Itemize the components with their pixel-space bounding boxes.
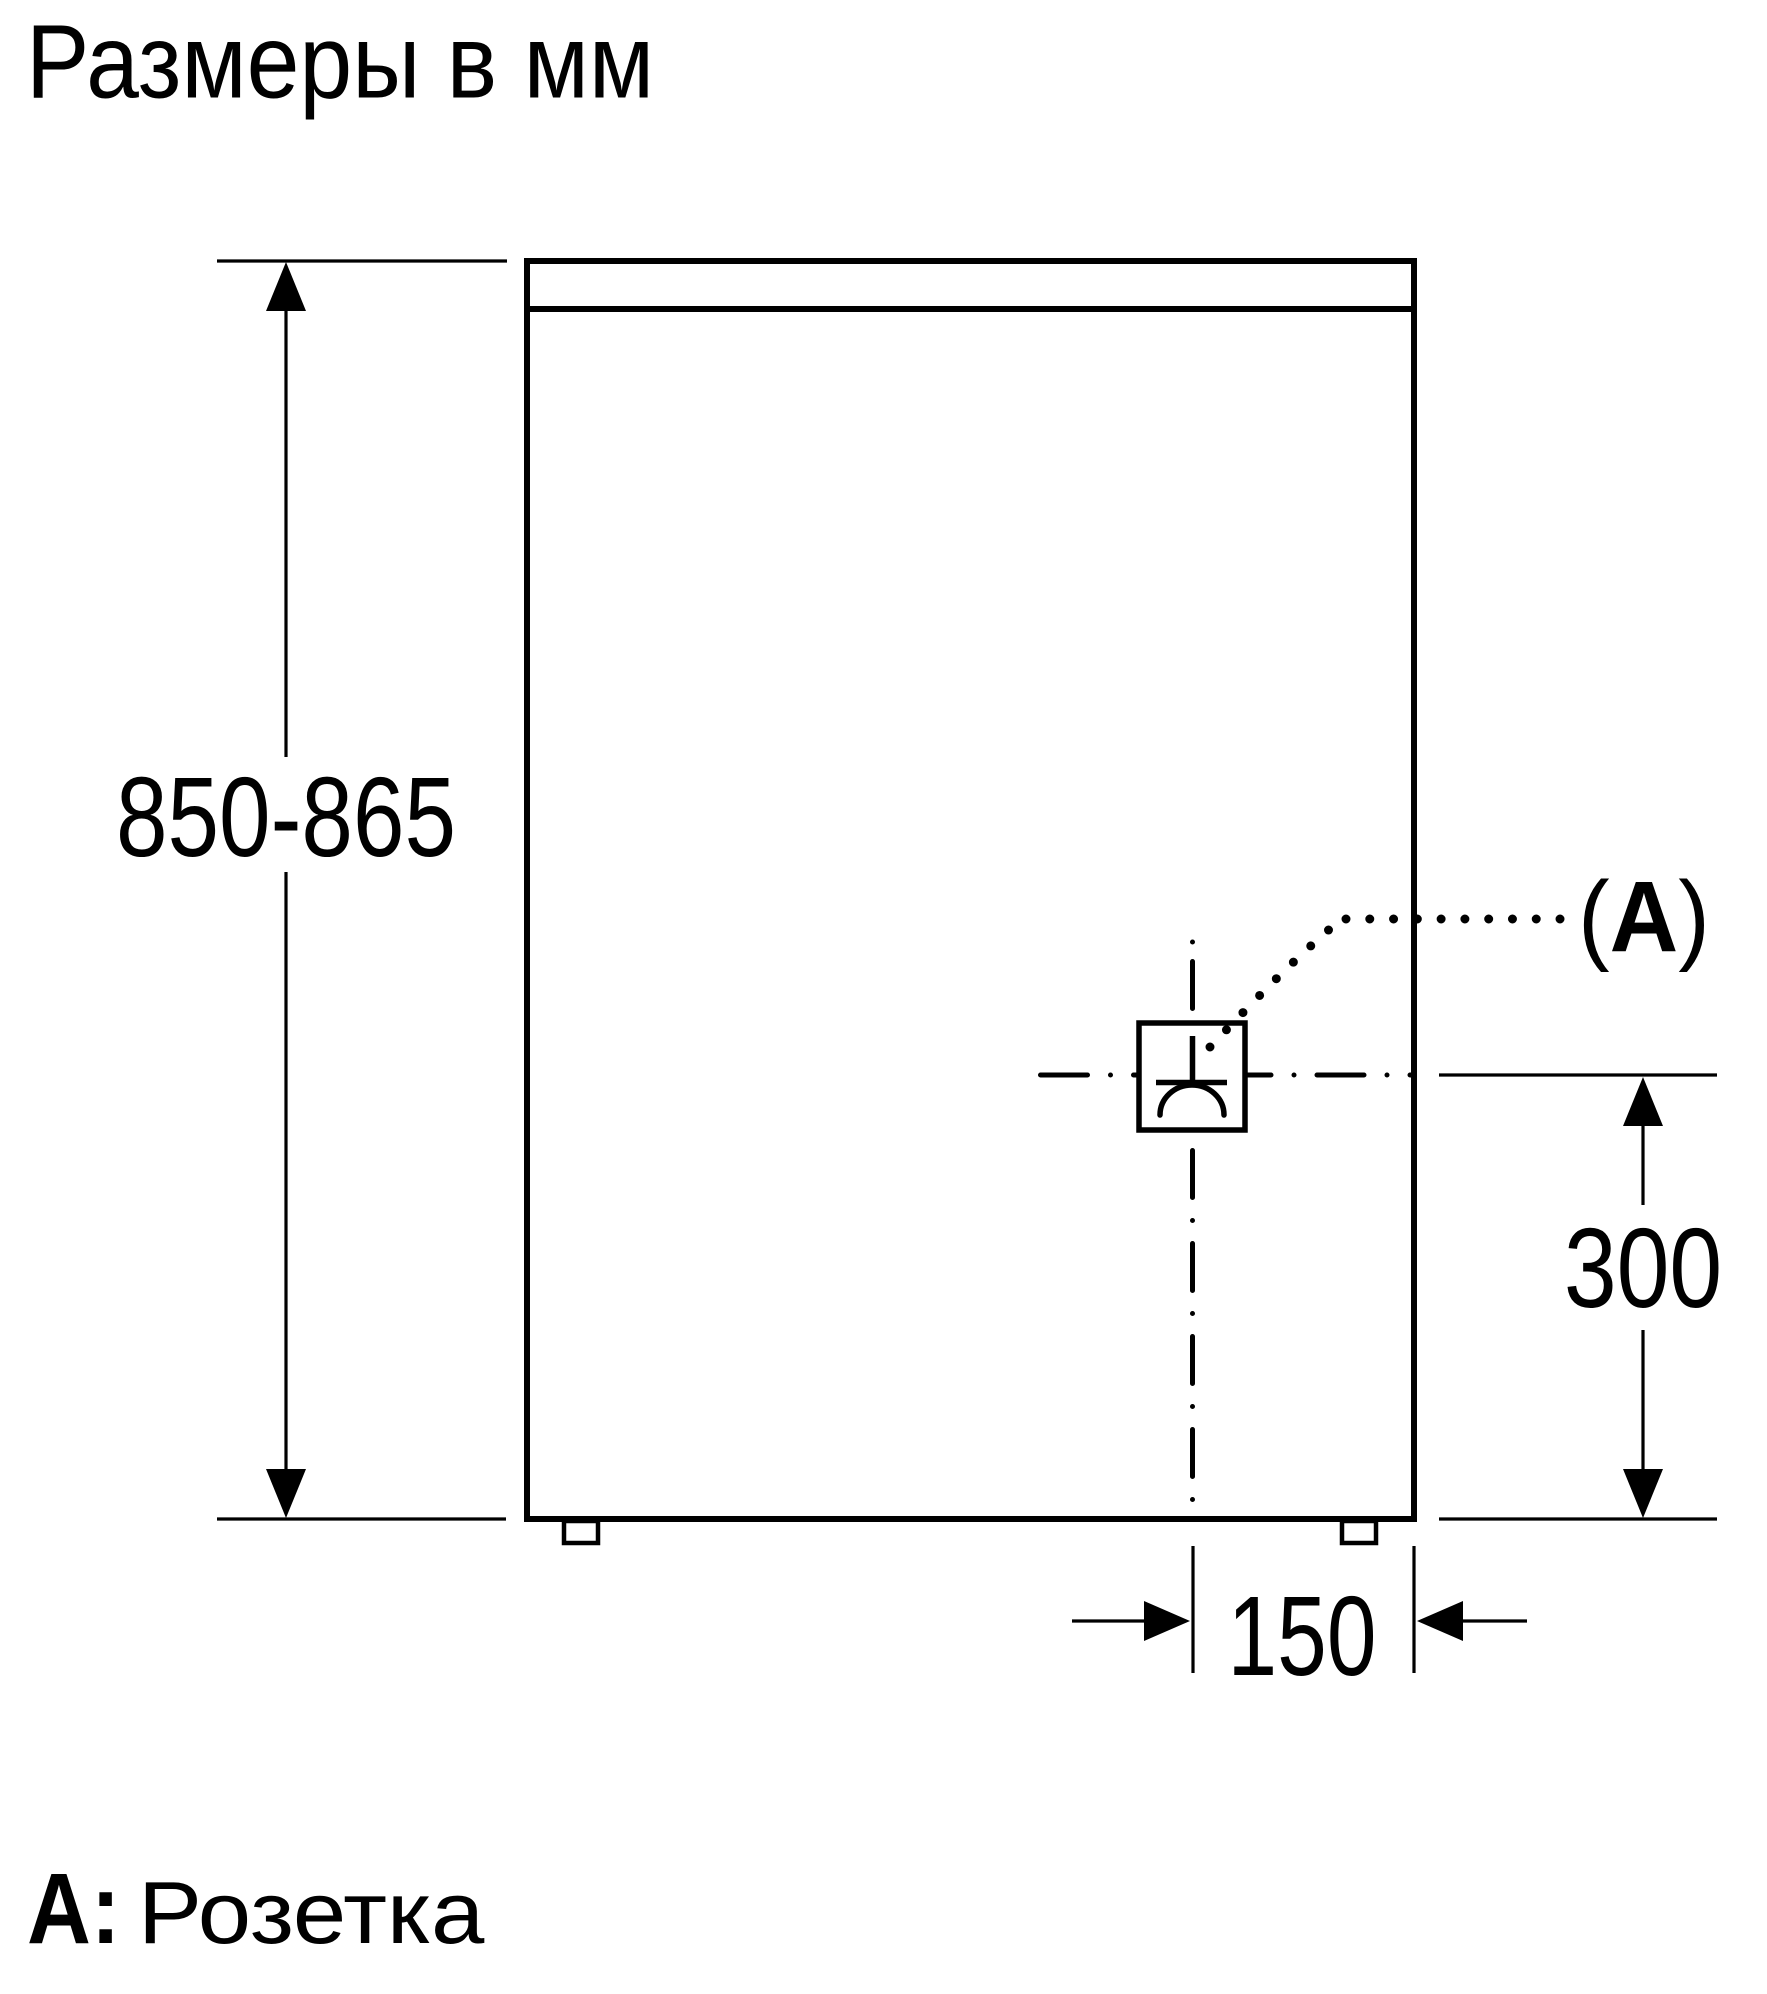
svg-text:150: 150 <box>1228 1573 1377 1700</box>
svg-text:Размеры в мм: Размеры в мм <box>26 3 654 120</box>
svg-text:Розетка: Розетка <box>138 1864 485 1962</box>
svg-text:850-865: 850-865 <box>116 753 456 880</box>
svg-text:A:: A: <box>27 1854 120 1965</box>
svg-text:(A): (A) <box>1578 861 1710 973</box>
svg-text:300: 300 <box>1564 1206 1722 1332</box>
